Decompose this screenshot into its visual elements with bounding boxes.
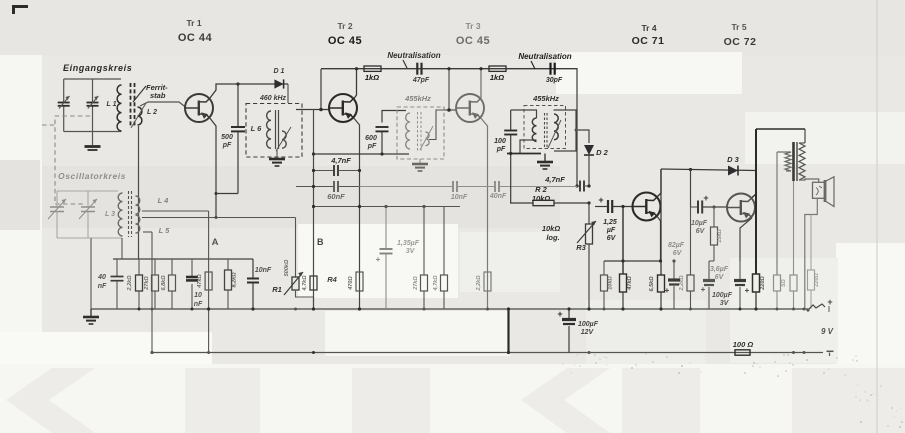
wire Tr4 base divider [621,205,624,274]
svg-text:OC 45: OC 45 [456,35,490,47]
svg-text:40: 40 [97,274,106,281]
svg-text:D 1: D 1 [274,68,285,75]
svg-text:B: B [317,237,324,247]
oscillator coil core [129,191,132,237]
transistor Tr3 [456,94,484,122]
svg-text:Tr 4: Tr 4 [641,23,656,33]
IF3 primary coil [532,118,536,141]
svg-text:pF: pF [222,142,232,149]
svg-text:47pF: 47pF [412,77,430,84]
svg-text:nF: nF [98,283,107,290]
wire to Tr3 base top [444,67,456,112]
svg-text:4,7kΩ: 4,7kΩ [433,275,439,292]
potentiometer R3 volume [542,203,596,309]
coil L3 [105,193,123,236]
rail junction dots [138,307,806,354]
wire Tr3 emitter [481,118,488,309]
wire output top [756,129,805,143]
svg-text:Oscillatorkreis: Oscillatorkreis [58,171,126,181]
oscillator tank wires [57,191,122,238]
coil L6 primary [251,111,271,148]
svg-text:1kΩ: 1kΩ [365,73,379,82]
svg-text:L 2: L 2 [147,109,157,116]
wire Tr4 emitter [658,217,661,261]
svg-text:3,6µF: 3,6µF [710,266,729,273]
wire L2 down [138,126,140,259]
svg-text:10kΩ: 10kΩ [542,224,561,233]
svg-text:Eingangskreis: Eingangskreis [63,63,132,73]
coil L5 [136,215,171,235]
coil L4 [136,196,170,214]
ferrite rod [131,83,135,127]
capacitor 4.7nF det [544,175,590,192]
IF transformer 460kHz dashed box [246,95,302,157]
wire speaker return [805,198,818,309]
diode D3 [727,155,740,176]
svg-text:27kΩ: 27kΩ [144,276,150,291]
coil L1 [107,85,122,131]
capacitor 10nF agc [424,181,494,201]
svg-text:Tr 5: Tr 5 [731,22,746,32]
switch on positive rail [806,297,832,312]
svg-text:2,2kΩ: 2,2kΩ [679,275,685,292]
capacitor 47pF [412,63,430,84]
wire IF1 to Tr2 base [296,69,329,111]
resistor R2 10k [510,185,591,206]
label Tr5 OC72 [724,22,757,48]
svg-text:pF: pF [496,146,506,153]
svg-text:6V: 6V [673,250,683,257]
ground main rail left [83,309,99,324]
svg-text:1kΩ: 1kΩ [490,73,504,82]
variable capacitor C2b [79,199,97,219]
svg-text:+: + [703,193,708,203]
resistor 1k first [364,66,381,82]
resistor 1k second [489,66,506,82]
resistor 100 ohm [733,340,754,355]
svg-text:log.: log. [546,233,559,242]
coil L2 [131,103,157,128]
svg-text:100µF: 100µF [712,292,733,299]
tuning gang dashed link [42,116,90,204]
svg-text:L 1: L 1 [107,101,117,108]
capacitor 4.7nF emitter [312,156,361,176]
resistor 8.2k [225,259,238,309]
potentiometer R1 [272,218,313,310]
svg-text:60nF: 60nF [327,192,345,201]
svg-text:OC 45: OC 45 [328,35,362,47]
svg-text:4,7nF: 4,7nF [544,175,565,184]
wire supply rail top [321,68,577,70]
resistor 6.5k collector [649,275,665,309]
resistor 6.8k [161,259,176,309]
svg-text:1,25: 1,25 [603,219,617,226]
label Neutralisation 2 [518,52,571,69]
capacitor 60nF [314,181,360,201]
transistor Tr1 [185,94,213,122]
capacitor 500pF [216,82,245,193]
IF3 secondary coil [548,114,561,148]
svg-text:600: 600 [365,135,377,142]
ground IF1 [269,150,285,166]
variable capacitor C1b [87,96,99,109]
resistor 10k divider [601,261,614,309]
ground IF3 [537,154,553,170]
resistor emitter 470 [348,272,363,291]
wire L5 run [142,216,296,219]
svg-text:Tr 3: Tr 3 [465,21,480,31]
electrolytic 3.6uF [701,261,729,309]
negative terminal [827,351,834,356]
capacitor 10nF styroflex [186,259,203,309]
label Tr2 OC45 [328,21,362,47]
wire Tr1 collector [210,84,238,98]
wire positive bottom rail [153,352,823,354]
svg-text:4,7kΩ: 4,7kΩ [302,275,308,292]
svg-text:220Ω: 220Ω [760,276,766,291]
svg-text:+: + [665,286,670,295]
svg-text:pF: pF [367,143,377,150]
svg-text:1,35µF: 1,35µF [397,240,420,247]
svg-text:27kΩ: 27kΩ [413,276,419,291]
wire Tr4 to D3 [661,168,756,171]
IF transformer 455kHz second box [511,94,576,154]
output transformer primary [799,143,819,182]
wire Tr5 emitter [740,218,752,261]
svg-text:D 3: D 3 [727,155,740,164]
label Oscillatorkreis [58,171,126,181]
variable capacitor C1a [58,96,70,109]
label Tr3 OC45 [456,21,490,47]
electrolytic 82uF [665,242,685,309]
svg-text:40nF: 40nF [489,193,507,200]
svg-text:82µF: 82µF [668,242,685,249]
svg-text:10µF: 10µF [691,220,708,227]
capacitor 600pF [365,111,406,156]
electrolytic 1.25uF coupling [595,195,633,242]
input tank wires [64,79,121,132]
svg-text:R 2: R 2 [535,185,548,194]
transistor Tr2 [329,94,357,122]
svg-text:L 3: L 3 [105,211,115,218]
thick rail link [507,307,510,354]
svg-text:6V: 6V [607,235,617,242]
wire IF3 to D2 [575,129,590,144]
wire Tr3 collector [479,67,482,98]
svg-text:L 5: L 5 [159,226,171,235]
wire Tr5 base divider [709,205,723,261]
page corner mark [12,5,28,14]
label Neutralisation 1 [387,51,440,68]
svg-text:4,7nF: 4,7nF [330,156,351,165]
svg-text:OC 71: OC 71 [632,35,665,47]
label Eingangskreis [63,63,132,73]
capacitor 10nF node A [247,259,272,311]
IF1 core [276,110,279,149]
svg-text:R1: R1 [272,285,282,294]
svg-text:8,2kΩ: 8,2kΩ [232,272,238,288]
svg-text:OC 44: OC 44 [178,32,213,44]
svg-text:5Ω: 5Ω [781,279,787,287]
wire negative rail [91,308,808,310]
svg-text:Tr 1: Tr 1 [186,18,201,28]
resistor sec load [774,275,788,309]
resistor Tr3 emitter [476,272,491,292]
wire Tr2 emitter [354,118,361,310]
svg-text:+: + [701,285,706,294]
output transformer secondary [777,152,791,275]
label Tr1 OC44 [178,18,213,44]
resistor 1k out [790,181,797,309]
electrolytic 100uF 12V [557,307,598,352]
resistor 220 ohm output [753,274,767,309]
svg-text:+: + [557,309,562,319]
label Tr4 OC71 [632,23,665,47]
capacitor 100pF [494,110,517,203]
capacitor 40nF agc [489,181,577,200]
wire emitter bus [604,259,662,262]
svg-text:10kΩ: 10kΩ [608,276,614,290]
resistor 220 right [808,215,821,310]
label 9V [821,327,834,336]
svg-text:+: + [827,297,832,307]
svg-text:15kΩ: 15kΩ [717,229,723,243]
IF2 primary coil [406,113,410,149]
variable capacitor C2a [48,199,66,219]
electrolytic 100uF 3V [712,261,750,309]
output transformer core [794,142,798,181]
svg-text:L 6: L 6 [251,124,263,133]
svg-text:30pF: 30pF [546,77,563,84]
svg-text:10: 10 [194,292,202,299]
resistor R4 [302,275,338,292]
wire bottom loop left [143,232,154,354]
svg-text:Neutralisation: Neutralisation [387,51,440,60]
wire L3 bottom [121,238,123,259]
wire L2 to base Tr1 [140,102,186,107]
svg-text:+: + [376,255,381,264]
resistor mid 27k [413,207,428,309]
svg-text:500: 500 [221,134,233,141]
svg-text:100: 100 [494,138,506,145]
svg-text:R4: R4 [327,275,337,284]
IF2 core [418,112,422,152]
svg-text:47kΩ: 47kΩ [197,274,203,289]
diode D2 [584,145,609,186]
svg-text:12V: 12V [581,329,595,336]
svg-text:Tr 2: Tr 2 [337,21,352,31]
wire oscillator to rail [57,238,91,309]
svg-text:D 2: D 2 [596,148,609,157]
speaker [813,177,835,207]
svg-text:3V: 3V [720,300,730,307]
capacitor 40nF [97,259,123,309]
svg-text:µF: µF [606,227,616,234]
svg-text:100 Ω: 100 Ω [733,340,754,349]
svg-text:+: + [598,195,603,205]
electrolytic 1.35uF [376,205,420,309]
wire agc left run [360,186,425,188]
svg-text:6V: 6V [696,228,706,235]
svg-text:+: + [745,286,750,295]
wire IF3 bottom [507,152,541,155]
node A vertical [207,211,219,353]
svg-text:2,2kΩ: 2,2kΩ [127,275,133,292]
resistor 27k [144,259,159,309]
wire Tr4 collector [658,169,662,275]
resistor 2.2k af [679,207,694,309]
svg-text:Neutralisation: Neutralisation [518,52,571,61]
electrolytic 10uF coupling [691,170,728,236]
IF transformer 455kHz first dashed box [397,94,444,159]
wire Tr5 collector thick [752,129,756,274]
svg-text:2,2kΩ: 2,2kΩ [476,275,482,292]
transistor Tr4 [633,193,661,221]
svg-text:R3: R3 [576,243,586,252]
ground input tank [85,132,101,151]
svg-text:nF: nF [194,301,203,308]
svg-text:9 V: 9 V [821,327,834,336]
resistor mid 4.7k [433,207,448,309]
svg-text:6V: 6V [715,274,725,281]
ground IF2 [412,159,428,171]
wire node B vertical [314,110,325,310]
wire base bus [314,153,410,155]
right edge scan line [876,0,878,433]
svg-text:10nF: 10nF [255,267,272,274]
svg-text:stab: stab [150,91,166,100]
resistor 2.2k [127,259,143,309]
resistor 47k on node A [197,272,212,290]
svg-text:470Ω: 470Ω [348,276,354,291]
svg-text:6,8kΩ: 6,8kΩ [161,275,167,291]
wire L4 tap [142,210,209,212]
svg-text:455kHz: 455kHz [532,94,559,103]
svg-text:500kΩ: 500kΩ [284,259,290,276]
wire mid bus [312,205,460,208]
wire Tr2 collector [354,67,358,98]
svg-text:A: A [212,237,219,248]
svg-text:L 4: L 4 [158,196,170,205]
wire detector drop [575,68,578,188]
svg-text:10nF: 10nF [451,194,468,201]
IF3 core [545,113,548,148]
resistor 47k divider [620,274,634,309]
IF2 secondary coil [420,110,444,150]
wire bias bus [113,258,253,260]
svg-text:100µF: 100µF [578,321,599,328]
svg-text:10kΩ: 10kΩ [532,194,551,203]
svg-text:OC 72: OC 72 [724,36,757,48]
transistor Tr5 [727,194,755,222]
diode D1 [238,68,288,103]
svg-text:460 kHz: 460 kHz [259,95,287,102]
svg-text:3V: 3V [406,248,416,255]
svg-text:47kΩ: 47kΩ [627,276,633,291]
svg-text:455kHz: 455kHz [404,94,431,103]
wire Tr1 emitter [210,118,218,217]
label Ferritstab [133,83,168,102]
coil L6 secondary [276,127,291,151]
svg-text:6,5kΩ: 6,5kΩ [649,276,655,292]
scan speckle noise [563,353,903,428]
svg-text:220Ω: 220Ω [814,273,820,288]
wire AGC line [296,152,315,188]
capacitor 30pF [546,63,563,84]
